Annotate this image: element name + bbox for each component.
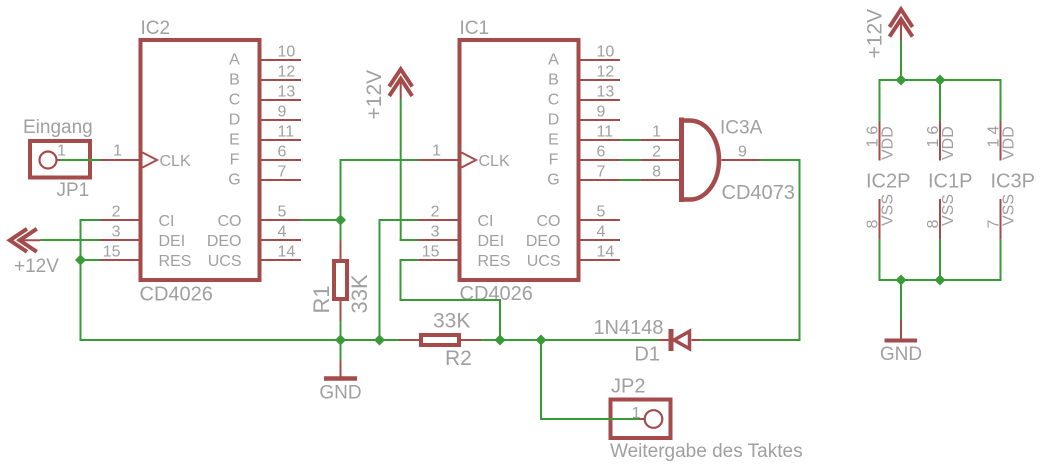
- wire D1 to corner: [700, 339, 801, 341]
- connector JP2: [611, 400, 671, 439]
- wire rail to GND left: [340, 339, 342, 361]
- svg-text:1: 1: [432, 143, 441, 160]
- svg-text:8: 8: [652, 164, 661, 181]
- IC1 pin 5 CO: [579, 219, 620, 221]
- wire +12V mid to IC1 pin3: [400, 239, 419, 241]
- wire VDD drop IC2P: [879, 79, 881, 122]
- wire +12V left to IC2 pin3: [40, 239, 100, 241]
- wire IC1 E to gate 1: [620, 139, 641, 141]
- R2 left pin: [399, 339, 421, 341]
- svg-text:VSS: VSS: [940, 194, 957, 226]
- junction at IC2 pin15: [75, 255, 86, 266]
- svg-text:+12V: +12V: [14, 256, 59, 277]
- svg-text:RES: RES: [478, 253, 511, 270]
- svg-text:11: 11: [597, 124, 614, 141]
- IC2 pin texts: [103, 44, 296, 271]
- wire pin15 route down to rail: [499, 299, 501, 341]
- svg-text:7: 7: [597, 164, 606, 181]
- power pins IC3P: [1000, 122, 1002, 240]
- wire IC1 G to gate 8: [620, 179, 641, 181]
- svg-text:2: 2: [112, 204, 121, 221]
- junction at pin15 route rail: [495, 335, 506, 346]
- resistor R2 33K horizontal: [421, 335, 459, 345]
- wire IC2 pin2 stub: [81, 219, 100, 221]
- wire IC1 pin15 down: [400, 259, 402, 301]
- svg-text:1: 1: [652, 124, 661, 141]
- svg-text:B: B: [548, 72, 559, 89]
- svg-text:F: F: [549, 152, 559, 169]
- svg-text:33K: 33K: [433, 310, 470, 333]
- IC3A pin numbers: [652, 124, 747, 181]
- svg-text:C: C: [229, 92, 241, 109]
- svg-text:CD4026: CD4026: [140, 284, 213, 306]
- svg-text:4: 4: [597, 224, 606, 241]
- svg-text:CO: CO: [537, 213, 561, 230]
- junction bottom rail IC1P: [935, 275, 946, 286]
- svg-text:14: 14: [278, 244, 296, 261]
- wire corner up to gate output row: [799, 159, 801, 341]
- IC1 pin 3 DEI: [418, 239, 459, 241]
- svg-text:IC2: IC2: [141, 18, 171, 39]
- svg-text:CI: CI: [478, 213, 494, 230]
- svg-text:GND: GND: [319, 383, 361, 404]
- svg-text:C: C: [548, 92, 560, 109]
- wire IC1 pin15 left: [400, 259, 419, 261]
- IC2 right pins A-G 10,12,13,9,11,6,7: [260, 59, 301, 61]
- svg-text:13: 13: [278, 84, 296, 101]
- svg-text:Eingang: Eingang: [23, 117, 93, 138]
- svg-text:1N4148: 1N4148: [593, 317, 663, 339]
- svg-text:D: D: [229, 112, 241, 129]
- svg-text:2: 2: [431, 204, 440, 221]
- svg-text:IC3A: IC3A: [720, 118, 763, 139]
- wire JP2 drop: [540, 339, 542, 420]
- wire VSS drop IC1P: [939, 239, 941, 281]
- junction at IC1 pin2 rail: [374, 335, 385, 346]
- wire IC1 pin2 down to rail: [379, 219, 381, 341]
- svg-text:7: 7: [278, 164, 287, 181]
- svg-text:9: 9: [597, 104, 606, 121]
- wire GND right drop: [900, 279, 902, 320]
- power pins IC1P: [939, 122, 941, 240]
- svg-text:1: 1: [57, 143, 66, 160]
- wire VDD drop IC3P: [1000, 79, 1002, 122]
- svg-text:VSS: VSS: [880, 194, 897, 226]
- svg-text:A: A: [548, 52, 559, 69]
- svg-text:D1: D1: [634, 344, 660, 366]
- wire bottom power rail: [880, 279, 1001, 281]
- svg-text:1: 1: [113, 143, 122, 160]
- JP2 pin stub: [639, 418, 645, 420]
- IC2 pin 4 DEO: [260, 239, 301, 241]
- wire VSS drop IC3P: [1000, 239, 1002, 281]
- svg-text:9: 9: [738, 144, 747, 161]
- IC3A output pin 9: [722, 159, 762, 161]
- svg-text:G: G: [228, 172, 240, 189]
- wire VSS drop IC2P: [879, 239, 881, 281]
- wire VDD drop IC1P: [939, 79, 941, 122]
- ground GND right: [885, 320, 918, 341]
- IC2 box CD4026: [141, 40, 260, 280]
- IC2 pin 5 CO: [260, 219, 301, 221]
- svg-text:E: E: [548, 132, 559, 149]
- svg-text:+12V: +12V: [864, 9, 887, 59]
- wire IC1 pin2 left: [379, 219, 419, 221]
- junction at R1 bottom rail: [335, 335, 346, 346]
- svg-text:IC1P: IC1P: [928, 171, 972, 193]
- svg-text:JP2: JP2: [611, 376, 645, 398]
- svg-text:E: E: [229, 132, 240, 149]
- svg-text:10: 10: [597, 44, 615, 61]
- wire gate output to corner: [761, 159, 801, 161]
- svg-text:JP1: JP1: [57, 180, 90, 201]
- supply +12V arrow left: [10, 229, 40, 252]
- svg-text:10: 10: [278, 44, 296, 61]
- svg-text:VSS: VSS: [1001, 194, 1018, 226]
- junction at R1 top node: [335, 215, 346, 226]
- svg-text:CI: CI: [159, 213, 175, 230]
- svg-text:IC1: IC1: [460, 18, 490, 39]
- svg-text:Weitergabe des Taktes: Weitergabe des Taktes: [610, 441, 803, 462]
- svg-text:33K: 33K: [347, 274, 372, 313]
- IC1 box CD4026: [460, 40, 579, 280]
- wire JP1 to IC2 CLK: [60, 159, 100, 161]
- junction at JP2 drop: [536, 335, 547, 346]
- junction bottom rail GND: [896, 275, 907, 286]
- svg-text:3: 3: [431, 224, 440, 241]
- wire clock row to IC1 CLK: [340, 159, 419, 161]
- svg-text:15: 15: [103, 244, 121, 261]
- wire IC2 CO to junction: [301, 219, 341, 221]
- power pins IC2P: [879, 122, 881, 240]
- svg-text:UCS: UCS: [208, 253, 242, 270]
- wire +12V mid down: [400, 99, 402, 242]
- IC1 right pins A-G 10,12,13,9,11,6,7: [579, 59, 620, 61]
- IC2 pin 14 UCS: [260, 259, 301, 261]
- svg-text:D: D: [548, 112, 560, 129]
- svg-text:R2: R2: [445, 347, 472, 370]
- svg-text:4: 4: [278, 224, 287, 241]
- IC1 CLK triangle: [462, 153, 477, 168]
- wire pin15 route horizontal: [400, 299, 502, 301]
- svg-text:GND: GND: [880, 344, 922, 365]
- connector JP1: [30, 141, 90, 178]
- svg-text:2: 2: [652, 144, 661, 161]
- IC2 pin 1 CLK: [99, 159, 140, 161]
- svg-text:12: 12: [278, 64, 296, 81]
- svg-text:CO: CO: [218, 213, 242, 230]
- wire R1 bottom to rail: [340, 321, 342, 341]
- wire top power rail: [880, 79, 1001, 81]
- wire junction up to clock row: [340, 159, 342, 241]
- svg-text:A: A: [229, 52, 240, 69]
- svg-text:G: G: [547, 172, 559, 189]
- wire rail R2 to D1: [481, 339, 659, 341]
- svg-text:13: 13: [597, 84, 615, 101]
- junction top rail IC1P: [935, 75, 946, 86]
- svg-text:CLK: CLK: [160, 153, 191, 170]
- svg-text:12: 12: [597, 64, 615, 81]
- svg-text:R1: R1: [309, 285, 334, 313]
- IC1 pin 4 DEO: [579, 239, 620, 241]
- svg-text:3: 3: [112, 224, 121, 241]
- IC1 pin 14 UCS: [579, 259, 620, 261]
- resistor R1 33K vertical: [334, 261, 347, 299]
- IC1 pin 2 CI: [418, 219, 459, 221]
- wire vertical x80: [80, 219, 82, 341]
- IC3A input pin 1: [641, 139, 679, 141]
- svg-text:14: 14: [597, 244, 615, 261]
- svg-text:6: 6: [597, 144, 606, 161]
- supply +12V arrow right: [890, 9, 913, 40]
- svg-text:5: 5: [597, 204, 606, 221]
- svg-text:UCS: UCS: [527, 253, 561, 270]
- op-amp gate IC3A CD4073: [682, 118, 720, 203]
- wire +12V right arrow down: [900, 40, 902, 81]
- svg-text:RES: RES: [159, 253, 192, 270]
- ground GND left: [324, 361, 357, 379]
- svg-text:CD4073: CD4073: [722, 182, 795, 204]
- junction top rail +12V: [896, 75, 907, 86]
- svg-text:VDD: VDD: [880, 126, 897, 160]
- IC3A input pin 2: [641, 159, 679, 161]
- svg-text:F: F: [230, 152, 240, 169]
- svg-text:B: B: [229, 72, 240, 89]
- IC2 pin 15 RES: [99, 259, 140, 261]
- JP1 pin stub: [57, 159, 62, 161]
- svg-text:DEI: DEI: [478, 233, 505, 250]
- svg-text:DEO: DEO: [526, 233, 561, 250]
- svg-text:IC2P: IC2P: [866, 171, 910, 193]
- svg-text:15: 15: [422, 244, 440, 261]
- wire JP2 horizontal: [540, 418, 640, 420]
- IC2 CLK triangle: [143, 153, 158, 168]
- svg-text:IC3P: IC3P: [991, 171, 1035, 193]
- IC1 pin 1 CLK: [418, 159, 459, 161]
- svg-text:VDD: VDD: [1001, 126, 1018, 160]
- svg-text:CD4026: CD4026: [460, 283, 533, 305]
- R2 right pin: [459, 339, 481, 341]
- svg-text:5: 5: [278, 204, 287, 221]
- wire bottom rail left: [80, 339, 400, 341]
- svg-text:9: 9: [278, 104, 287, 121]
- svg-text:DEI: DEI: [159, 233, 186, 250]
- IC1 pin texts: [422, 44, 615, 271]
- R1 top pin: [340, 241, 342, 262]
- IC2 pin 3 DEI: [99, 239, 140, 241]
- wire IC2 pin15 stub: [81, 259, 100, 261]
- IC2 pin 2 CI: [99, 219, 140, 221]
- svg-text:DEO: DEO: [207, 233, 242, 250]
- IC1 pin 15 RES: [418, 259, 459, 261]
- diode D1 1N4148: [659, 329, 700, 351]
- R1 bottom pin: [340, 299, 342, 321]
- supply +12V arrow middle: [389, 69, 412, 98]
- wire IC1 F to gate 2: [620, 159, 641, 161]
- svg-text:CLK: CLK: [479, 153, 510, 170]
- svg-text:+12V: +12V: [363, 70, 386, 120]
- svg-text:VDD: VDD: [940, 126, 957, 160]
- IC3A input pin 8: [641, 179, 679, 181]
- svg-text:6: 6: [278, 144, 287, 161]
- svg-text:11: 11: [278, 124, 295, 141]
